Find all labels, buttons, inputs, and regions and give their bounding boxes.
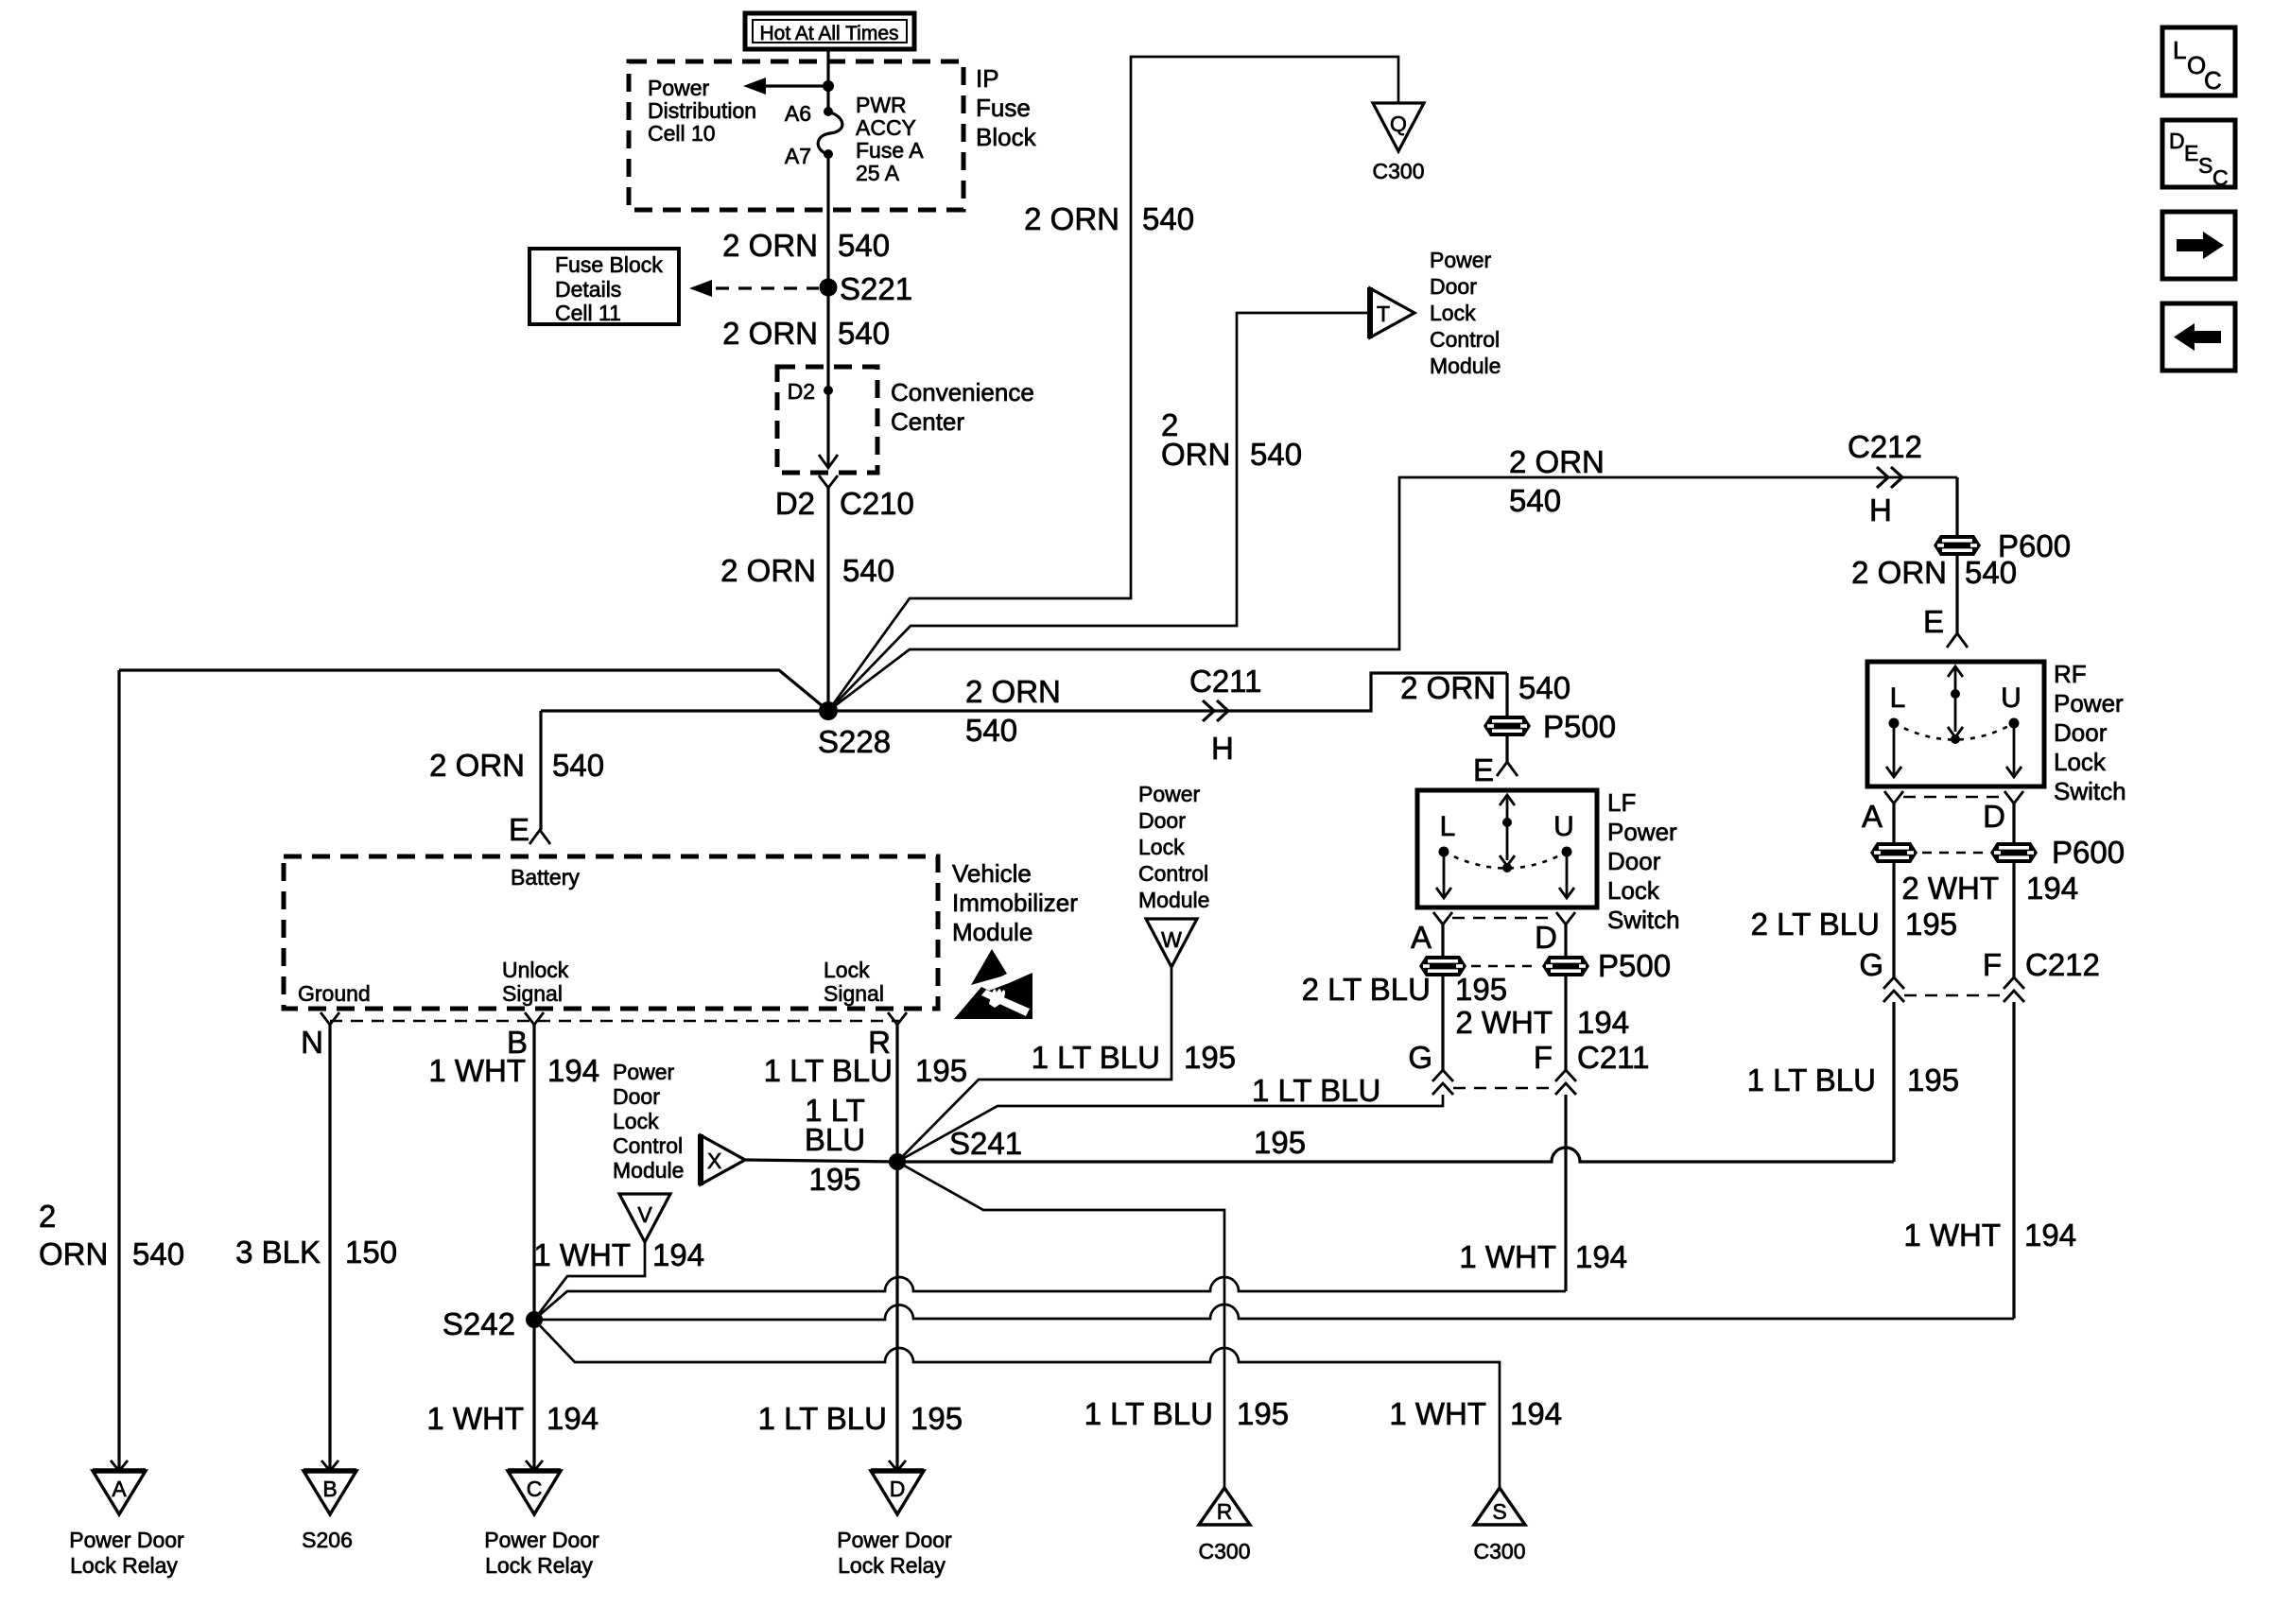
switch center actuator arrow: [1954, 669, 1957, 694]
wire A to P500: [1441, 924, 1444, 956]
svg-text:C210: C210: [840, 486, 914, 521]
svg-text:Vehicle: Vehicle: [952, 859, 1032, 888]
wire E branch down to battery pin: [539, 711, 542, 830]
svg-text:P500: P500: [1543, 709, 1616, 744]
pin G C211 chevrons: [1408, 1040, 1453, 1095]
svg-text:Lock: Lock: [2054, 748, 2107, 776]
ESD symbol: [954, 949, 1032, 1019]
switch contact U: [2009, 718, 2020, 729]
label 1 LT BLU 195 on G run: [1252, 1073, 1380, 1160]
svg-text:3 BLK: 3 BLK: [235, 1235, 321, 1270]
svg-text:Lock Relay: Lock Relay: [70, 1553, 178, 1578]
wire 2 WHT 194 down to F: [1564, 976, 1567, 1070]
svg-text:Power Door: Power Door: [69, 1528, 184, 1552]
svg-text:Lock: Lock: [1430, 301, 1476, 325]
Power Door Lock Control Module text at X: [613, 1060, 684, 1183]
wire P500 to LF switch pin E: [1505, 736, 1508, 762]
svg-text:2 ORN: 2 ORN: [1024, 201, 1119, 236]
svg-text:2 ORN: 2 ORN: [429, 748, 525, 783]
svg-text:A: A: [112, 1477, 127, 1501]
label 2 WHT 194 RF: [1901, 871, 2078, 906]
svg-text:2 ORN: 2 ORN: [1400, 670, 1496, 705]
triangle C power door lock relay: [508, 1460, 561, 1514]
svg-text:194: 194: [2026, 871, 2078, 906]
wire branch to W module: [897, 968, 1171, 1162]
svg-text:E: E: [1473, 752, 1494, 787]
svg-text:195: 195: [1254, 1125, 1306, 1160]
LF/RF switch box: [1417, 790, 1597, 907]
wire S221 to Convenience Center: [826, 287, 829, 390]
svg-text:PWR: PWR: [856, 93, 907, 117]
svg-text:Unlock: Unlock: [502, 958, 569, 982]
svg-text:Door: Door: [1607, 847, 1661, 875]
svg-text:Block: Block: [976, 123, 1037, 151]
svg-text:Battery: Battery: [511, 865, 580, 890]
svg-text:Door: Door: [2054, 718, 2108, 747]
pin F C212 chevrons: [1983, 947, 2100, 1002]
C212 boundary dashed: [1904, 994, 2004, 997]
Lock Signal label: [824, 958, 884, 1006]
triangle X: [701, 1134, 745, 1185]
IP Fuse Block name: [976, 64, 1037, 151]
wire G RF down to S241 run: [1892, 1002, 1895, 1162]
wire inside convenience center with arrow: [826, 390, 829, 467]
svg-text:195: 195: [911, 1401, 963, 1436]
wire P600 to RF switch pin E: [1955, 556, 1958, 633]
label 2 ORN 540 on T branch: [1161, 407, 1302, 472]
svg-text:2 ORN: 2 ORN: [720, 553, 816, 588]
svg-text:ACCY: ACCY: [856, 115, 916, 140]
svg-text:Lock Relay: Lock Relay: [838, 1553, 946, 1578]
label 1 LT BLU 195 on W branch: [1032, 1040, 1236, 1075]
svg-text:D: D: [1535, 920, 1557, 955]
switch contact L: [1889, 718, 1900, 729]
svg-text:Fuse: Fuse: [976, 94, 1031, 122]
wire 2 ORN 540 C210 to S228: [826, 488, 829, 711]
IP Fuse Block dashed box: [629, 61, 963, 210]
label 2 LT BLU 195 RF: [1751, 907, 1957, 942]
label 1 LT BLU 195 under R: [764, 1053, 967, 1088]
svg-text:ORN: ORN: [39, 1236, 108, 1271]
svg-text:H: H: [1869, 492, 1892, 527]
svg-text:F: F: [1534, 1040, 1553, 1075]
svg-text:Lock: Lock: [824, 958, 870, 982]
svg-text:E: E: [1923, 604, 1944, 639]
svg-text:Q: Q: [1390, 112, 1407, 136]
label 3 BLK 150: [235, 1235, 397, 1270]
svg-text:D2: D2: [775, 486, 815, 521]
svg-text:F: F: [1983, 947, 2002, 982]
label 2 ORN 540 LF feed: [1400, 670, 1570, 705]
junction dot fuse feed: [823, 80, 834, 92]
svg-text:T: T: [1377, 302, 1390, 326]
svg-text:1 LT BLU: 1 LT BLU: [1747, 1063, 1876, 1097]
svg-text:540: 540: [838, 316, 890, 351]
switch name: [1607, 788, 1680, 934]
label 2 ORN 540 RF feed: [1851, 555, 2017, 590]
svg-text:Cell 11: Cell 11: [555, 301, 621, 325]
svg-text:Signal: Signal: [502, 981, 563, 1006]
svg-text:2 ORN: 2 ORN: [1851, 555, 1947, 590]
svg-text:Module: Module: [1138, 888, 1209, 912]
wire D to P500: [1564, 924, 1567, 956]
svg-text:540: 540: [965, 713, 1017, 748]
svg-text:Power: Power: [1430, 248, 1492, 272]
switch name: [2054, 660, 2126, 805]
svg-text:A7: A7: [785, 144, 811, 168]
wire 2 LT BLU 195 down to G RF: [1892, 863, 1895, 977]
svg-text:C211: C211: [1577, 1040, 1649, 1075]
RF switch boundary dashed: [1903, 796, 2004, 799]
svg-text:Center: Center: [891, 407, 964, 436]
svg-text:540: 540: [132, 1236, 184, 1271]
svg-text:2: 2: [39, 1199, 56, 1234]
C211 boundary dashed: [1453, 1087, 1555, 1090]
svg-text:LF: LF: [1607, 788, 1636, 817]
connector P600 pins: [1870, 835, 2125, 870]
wire 2 LT BLU 195 down to G: [1441, 976, 1444, 1070]
svg-text:G: G: [1408, 1040, 1432, 1075]
connector P600 feed: [1934, 528, 2071, 563]
switch contact L: [1439, 847, 1449, 857]
svg-text:Power Door: Power Door: [484, 1528, 599, 1552]
svg-text:195: 195: [1455, 972, 1507, 1007]
wire left feeder 2 ORN 540 down to relay A: [117, 670, 120, 1471]
svg-text:C212: C212: [1848, 429, 1922, 464]
label 1 WHT 194 at relay C: [426, 1401, 599, 1436]
svg-text:Control: Control: [613, 1133, 683, 1158]
svg-text:N: N: [301, 1025, 323, 1060]
wire 2 WHT 194 down to F RF: [2012, 863, 2015, 977]
svg-text:194: 194: [1510, 1396, 1562, 1431]
wire to pin A6: [826, 86, 829, 112]
svg-text:A: A: [1411, 920, 1431, 955]
svg-text:C: C: [2204, 66, 2222, 95]
svg-text:Details: Details: [555, 277, 621, 302]
svg-text:2 WHT: 2 WHT: [1901, 871, 1999, 906]
label 2 ORN 540 E branch: [429, 748, 604, 783]
svg-text:Door: Door: [613, 1084, 660, 1109]
switch dashed arc: [1894, 723, 2014, 740]
svg-text:Fuse Block: Fuse Block: [555, 252, 663, 277]
connector C211 chevrons H: [1189, 664, 1261, 766]
svg-text:1 WHT: 1 WHT: [533, 1237, 631, 1272]
svg-text:ORN: ORN: [1161, 437, 1230, 472]
label 2 WHT 194: [1455, 1005, 1629, 1040]
immobilizer connector dashed line: [330, 1020, 899, 1023]
wire R lock signal to relay D: [895, 1162, 898, 1471]
svg-text:U: U: [1553, 811, 1574, 842]
svg-text:1 WHT: 1 WHT: [1459, 1239, 1556, 1274]
triangle W: [1146, 919, 1197, 967]
pin N fork: [301, 1012, 339, 1060]
svg-text:Lock: Lock: [1607, 876, 1660, 905]
switch dashed arc: [1444, 852, 1567, 869]
svg-text:540: 540: [1142, 201, 1194, 236]
legend box LOC: [2162, 27, 2235, 95]
label 1 WHT 194 on F wire: [1459, 1239, 1627, 1274]
svg-text:Switch: Switch: [1607, 906, 1680, 934]
svg-text:S: S: [2198, 153, 2212, 178]
Unlock Signal label: [502, 958, 569, 1006]
label 1 WHT 194 RF F: [1903, 1218, 2076, 1253]
svg-text:V: V: [637, 1202, 652, 1227]
svg-text:C300: C300: [1474, 1539, 1526, 1564]
svg-text:194: 194: [2024, 1218, 2076, 1253]
label D2 C210: [775, 486, 914, 521]
wire battery feed into fuse block: [826, 49, 829, 86]
svg-text:C212: C212: [2025, 947, 2100, 982]
triangle A power door lock relay: [93, 1460, 146, 1514]
wire D to P600: [2012, 803, 2015, 842]
wire line d S242 to C300 S: [534, 1320, 1500, 1488]
svg-text:Power: Power: [2054, 689, 2124, 717]
wire upper-left run to left feeder: [119, 670, 828, 711]
triangle D power door lock relay: [871, 1460, 924, 1514]
wire 2 ORN 540 fuse to S221: [826, 154, 829, 287]
legend box DESC: [2162, 120, 2235, 190]
svg-text:C300: C300: [1373, 159, 1425, 183]
svg-text:B: B: [322, 1477, 337, 1501]
wire branch to C212 RF feed: [828, 477, 1957, 711]
wire V to S242: [534, 1242, 645, 1320]
wire N ground 3 BLK 150 to S206: [328, 1025, 331, 1471]
wire branch to C300 Q: [828, 57, 1398, 711]
pin D RF fork: [1983, 791, 2023, 834]
Convenience Center dashed box: [777, 367, 877, 473]
triangle R C300: [1199, 1488, 1250, 1525]
Power Door Lock Control Module text at T: [1430, 248, 1501, 378]
svg-text:Power: Power: [1138, 782, 1201, 806]
svg-text:1 WHT: 1 WHT: [426, 1401, 524, 1436]
LF/RF switch box: [1867, 662, 2044, 786]
label 1 WHT 194 at C300 S: [1389, 1396, 1562, 1431]
label 1 WHT 194 under B: [428, 1053, 599, 1088]
svg-text:S221: S221: [840, 271, 912, 306]
svg-text:150: 150: [345, 1235, 397, 1270]
label 2 ORN 540 above S228: [720, 553, 894, 588]
svg-text:P600: P600: [2052, 835, 2125, 870]
connector P500 feed: [1484, 709, 1616, 744]
wire line b S242 to LF F: [534, 1277, 1566, 1320]
wire F down to line b: [1564, 1095, 1567, 1291]
Power Door Lock Control Module text at W: [1138, 782, 1209, 912]
svg-text:540: 540: [552, 748, 604, 783]
svg-text:194: 194: [547, 1053, 599, 1088]
svg-text:2 ORN: 2 ORN: [965, 674, 1061, 709]
svg-text:Lock Relay: Lock Relay: [485, 1553, 593, 1578]
svg-text:Module: Module: [1430, 354, 1501, 378]
svg-text:Immobilizer: Immobilizer: [952, 889, 1078, 917]
dashed arrow to Fuse Block Details: [689, 280, 819, 297]
svg-text:S228: S228: [818, 724, 891, 759]
svg-text:2 LT BLU: 2 LT BLU: [1302, 972, 1431, 1007]
svg-text:Lock: Lock: [613, 1109, 659, 1133]
triangle B S206: [304, 1460, 356, 1514]
arrow to power distribution: [743, 78, 828, 95]
svg-text:L: L: [1440, 811, 1456, 842]
svg-text:194: 194: [547, 1401, 599, 1436]
label 1 LT BLU 195 at X: [805, 1093, 865, 1197]
svg-text:L: L: [1890, 682, 1906, 714]
svg-text:540: 540: [1509, 483, 1561, 518]
svg-text:540: 540: [1965, 555, 2017, 590]
svg-text:Door: Door: [1430, 274, 1477, 299]
pin A RF fork: [1862, 791, 1903, 834]
wire S228 main run to C211: [541, 673, 1507, 711]
wire down to P600: [1955, 477, 1958, 535]
splice S242: [442, 1306, 543, 1341]
svg-text:P500: P500: [1598, 948, 1671, 983]
svg-text:195: 195: [1184, 1040, 1236, 1075]
label 2 ORN 540 on Q branch: [1024, 201, 1194, 236]
legend box right arrow: [2162, 212, 2235, 279]
svg-text:194: 194: [1575, 1239, 1627, 1274]
svg-text:S242: S242: [442, 1306, 515, 1341]
wire line c S242 to RF F: [534, 1304, 2014, 1320]
connector C210 fork: [819, 475, 838, 488]
svg-text:1 LT BLU: 1 LT BLU: [1032, 1040, 1160, 1075]
pin A LF fork: [1411, 912, 1452, 955]
svg-text:195: 195: [808, 1162, 860, 1197]
pin A6: [785, 101, 833, 126]
splice S241: [889, 1126, 1022, 1170]
svg-text:D: D: [1983, 799, 2005, 834]
pin D2: [788, 379, 833, 404]
svg-text:2 ORN: 2 ORN: [722, 228, 818, 263]
label 2 ORN 540 on C212 run: [1509, 444, 1605, 518]
label 2 ORN 540 on main run: [965, 674, 1061, 748]
Power Distribution Cell 10 text: [648, 76, 756, 146]
svg-text:Convenience: Convenience: [891, 378, 1034, 406]
pin E LF fork: [1473, 752, 1518, 787]
pin A7: [785, 144, 833, 168]
svg-text:2 LT BLU: 2 LT BLU: [1751, 907, 1880, 942]
wire branch to T module: [828, 313, 1370, 711]
svg-text:S: S: [1492, 1499, 1506, 1524]
wire S241 main run to RF G: [897, 1148, 1894, 1162]
svg-text:540: 540: [838, 228, 890, 263]
svg-text:2 ORN: 2 ORN: [1509, 444, 1605, 479]
svg-text:1 WHT: 1 WHT: [1903, 1218, 2001, 1253]
svg-text:U: U: [2001, 682, 2021, 714]
wire F RF down to line c: [2012, 1002, 2015, 1319]
pin B fork: [507, 1012, 544, 1060]
svg-text:Hot At All Times: Hot At All Times: [759, 23, 898, 44]
label 2 ORN 540 below S221: [722, 316, 890, 351]
svg-text:Fuse A: Fuse A: [856, 138, 924, 163]
svg-text:C: C: [2212, 165, 2229, 190]
svg-text:Power: Power: [648, 76, 710, 100]
svg-text:Cell 10: Cell 10: [648, 121, 716, 146]
label 1 WHT 194 at V: [533, 1237, 704, 1272]
triangle S C300: [1474, 1488, 1525, 1525]
wire X to S241: [745, 1160, 897, 1162]
svg-text:Signal: Signal: [824, 981, 884, 1006]
connector C212 chevrons H: [1848, 429, 1922, 527]
svg-text:C300: C300: [1199, 1539, 1251, 1564]
svg-text:1 LT BLU: 1 LT BLU: [758, 1401, 887, 1436]
fuse PWR ACCY Fuse A 25 A: [818, 112, 842, 154]
svg-text:C211: C211: [1189, 664, 1261, 699]
svg-text:194: 194: [652, 1237, 704, 1272]
svg-text:1 WHT: 1 WHT: [1389, 1396, 1486, 1431]
label box Fuse Block Details Cell 11: [529, 249, 679, 325]
svg-text:D2: D2: [788, 379, 815, 404]
svg-text:A: A: [1862, 799, 1883, 834]
splice S228: [818, 701, 891, 759]
Vehicle Immobilizer Module dashed box: [284, 856, 938, 1009]
switch center actuator arrow: [1506, 798, 1509, 822]
svg-text:Ground: Ground: [298, 981, 371, 1006]
wire R lock signal down to S241: [895, 1025, 898, 1162]
splice S221: [820, 271, 913, 306]
label 2 ORN 540 left feeder: [39, 1199, 184, 1271]
wire branch down to C300 R: [897, 1162, 1224, 1488]
svg-text:H: H: [1211, 731, 1234, 766]
svg-text:Control: Control: [1138, 861, 1208, 886]
svg-text:Distribution: Distribution: [648, 98, 756, 123]
svg-text:X: X: [707, 1149, 721, 1173]
svg-text:D: D: [2169, 129, 2185, 153]
Convenience Center name: [891, 378, 1034, 436]
svg-text:Switch: Switch: [2054, 777, 2126, 805]
svg-text:E: E: [509, 812, 529, 847]
svg-text:Power Door: Power Door: [837, 1528, 952, 1552]
Vehicle Immobilizer Module name: [952, 859, 1078, 946]
svg-text:RF: RF: [2054, 660, 2087, 688]
svg-text:S241: S241: [949, 1126, 1022, 1161]
svg-text:540: 540: [1250, 437, 1302, 472]
svg-text:L: L: [2173, 36, 2186, 64]
wire A to P600: [1892, 803, 1895, 842]
svg-text:Control: Control: [1430, 327, 1500, 352]
svg-text:D: D: [890, 1477, 906, 1501]
svg-text:2 ORN: 2 ORN: [722, 316, 818, 351]
svg-text:195: 195: [1907, 1063, 1959, 1097]
svg-text:Lock: Lock: [1138, 835, 1185, 859]
switch contact U: [1562, 847, 1572, 857]
svg-text:G: G: [1859, 947, 1883, 982]
svg-text:S206: S206: [302, 1528, 353, 1552]
wire B unlock signal down to S242: [532, 1025, 535, 1320]
pin E RF fork: [1923, 604, 1968, 648]
svg-text:540: 540: [1518, 670, 1570, 705]
label 1 LT BLU 195 at C300 R: [1084, 1396, 1289, 1431]
svg-text:195: 195: [1905, 907, 1957, 942]
legend box left arrow: [2162, 303, 2235, 371]
svg-text:Power: Power: [613, 1060, 675, 1084]
svg-text:2 WHT: 2 WHT: [1455, 1005, 1553, 1040]
svg-text:195: 195: [1237, 1396, 1289, 1431]
svg-text:Power: Power: [1607, 818, 1677, 846]
wire B down to relay C: [532, 1320, 535, 1471]
label 2 LT BLU 195: [1302, 972, 1507, 1007]
wire G down and left to S241: [897, 1095, 1443, 1162]
svg-text:1 LT BLU: 1 LT BLU: [1084, 1396, 1213, 1431]
svg-text:IP: IP: [976, 64, 999, 93]
svg-text:BLU: BLU: [805, 1122, 865, 1157]
svg-text:540: 540: [842, 553, 894, 588]
svg-text:1 LT BLU: 1 LT BLU: [1252, 1073, 1380, 1108]
label box Hot At All Times: [745, 13, 914, 49]
svg-text:195: 195: [915, 1053, 967, 1088]
pin F C211 chevrons: [1534, 1040, 1650, 1095]
svg-text:R: R: [1217, 1499, 1233, 1524]
svg-text:Module: Module: [952, 918, 1032, 946]
triangle Q: [1373, 103, 1424, 151]
connector P500 pins: [1419, 948, 1671, 983]
